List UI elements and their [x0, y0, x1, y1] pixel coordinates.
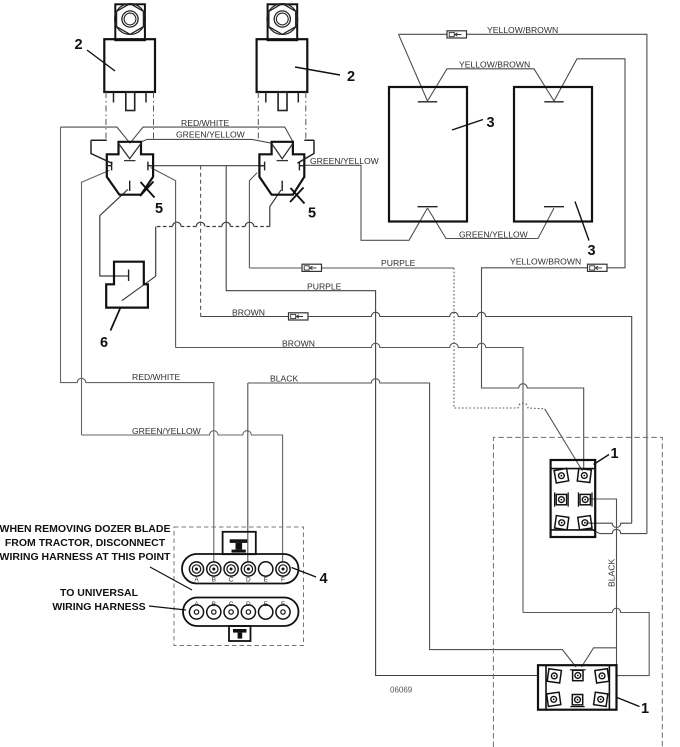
component 6 — [106, 262, 148, 308]
wire BLACK to connector 4 pin D and bottom connector 1 — [248, 379, 576, 667]
svg-text:RED/WHITE: RED/WHITE — [181, 118, 229, 128]
wire jumper connector5 right center pin to bump line — [270, 190, 281, 227]
svg-text:GREEN/YELLOW: GREEN/YELLOW — [310, 156, 380, 166]
svg-text:B: B — [212, 601, 216, 608]
svg-text:TO UNIVERSAL: TO UNIVERSAL — [60, 587, 139, 599]
wire RED/WHITE main to connector 4 pin B — [61, 127, 214, 562]
leader label 5 left — [140, 182, 155, 198]
svg-text:WIRING HARNESS: WIRING HARNESS — [52, 601, 145, 613]
svg-text:3: 3 — [588, 243, 596, 259]
wire diagonal into component 6 — [122, 276, 156, 301]
svg-text:6: 6 — [100, 335, 108, 351]
svg-text:5: 5 — [308, 206, 316, 222]
connector 1 lower — [538, 665, 617, 710]
svg-text:1: 1 — [641, 701, 649, 717]
svg-text:PURPLE: PURPLE — [381, 258, 416, 268]
pin letters lower connector 4 — [194, 601, 285, 608]
svg-text:F: F — [281, 601, 285, 608]
leader label 6 — [111, 308, 121, 331]
leader label 5 right — [290, 188, 305, 204]
svg-text:WHEN REMOVING DOZER BLADE: WHEN REMOVING DOZER BLADE — [0, 523, 170, 535]
svg-text:RED/WHITE: RED/WHITE — [132, 372, 180, 382]
svg-text:GREEN/YELLOW: GREEN/YELLOW — [176, 130, 246, 140]
svg-text:YELLOW/BROWN: YELLOW/BROWN — [510, 257, 581, 267]
svg-text:2: 2 — [347, 69, 355, 85]
connector 4 lower half — [183, 598, 299, 642]
svg-text:E: E — [264, 601, 269, 608]
svg-text:BLACK: BLACK — [270, 374, 298, 384]
svg-text:C: C — [229, 577, 234, 584]
svg-text:FROM TRACTOR, DISCONNECT: FROM TRACTOR, DISCONNECT — [5, 537, 166, 549]
svg-text:F: F — [281, 577, 285, 584]
leader label 2 left — [87, 50, 115, 71]
svg-text:2: 2 — [75, 37, 83, 53]
wire PURPLE 1 diagonal into connector 1 — [545, 409, 583, 471]
wire BLACK vertical from upper connector 1 — [582, 499, 617, 667]
inline connector on yellow/brown top — [447, 31, 467, 38]
wire PURPLE 1 dotted harness section — [454, 268, 545, 409]
svg-text:GREEN/YELLOW: GREEN/YELLOW — [132, 426, 202, 436]
actuator 3 left — [389, 87, 467, 222]
wire YELLOW/BROWN top with vertical right side — [399, 34, 647, 533]
svg-text:YELLOW/BROWN: YELLOW/BROWN — [459, 60, 530, 70]
solenoid valve coil 2 left — [104, 4, 155, 142]
note to universal wiring harness — [52, 587, 145, 613]
actuator 3 right — [514, 87, 592, 222]
wire YELLOW/BROWN second run — [428, 69, 555, 101]
leader label 1 lower — [617, 698, 640, 707]
LEADER LINES — [87, 50, 640, 707]
svg-text:06069: 06069 — [390, 686, 413, 695]
leader label 2 right — [295, 67, 340, 75]
svg-text:PURPLE: PURPLE — [307, 282, 342, 292]
svg-text:YELLOW/BROWN: YELLOW/BROWN — [487, 25, 558, 35]
dashed harness box right — [493, 437, 662, 747]
inline connector on brown — [289, 313, 309, 320]
svg-text:B: B — [212, 577, 216, 584]
wire GREEN/YELLOW main to connector 4 pin F — [82, 170, 283, 562]
inline connector on purple — [302, 264, 322, 271]
pin letters upper connector 4 — [194, 577, 285, 584]
note when removing dozer blade — [0, 523, 171, 563]
wire PURPLE 2 drop from node — [226, 166, 538, 676]
inline connector symbols — [289, 31, 608, 320]
connector 5 left — [91, 140, 153, 194]
solenoid valve coil 2 right — [257, 4, 308, 142]
leader label 3 right — [575, 202, 589, 241]
inline connector on yellow/brown lower — [588, 264, 608, 271]
wire BROWN 2 from connector 5 left right pin — [151, 168, 650, 676]
svg-text:E: E — [264, 577, 269, 584]
connector 4 upper half — [182, 532, 299, 584]
svg-text:A: A — [194, 577, 199, 584]
leader label 3 left — [452, 120, 483, 131]
connector 4 assembly dashed box — [174, 527, 304, 646]
svg-text:A: A — [194, 601, 199, 608]
wire GREEN/YELLOW top run — [142, 139, 272, 143]
svg-text:WIRING HARNESS AT THIS POINT: WIRING HARNESS AT THIS POINT — [0, 551, 171, 563]
svg-text:4: 4 — [320, 571, 328, 587]
svg-text:3: 3 — [487, 115, 495, 131]
wire GREEN/YELLOW between connectors 5 — [147, 165, 264, 167]
leader label 1 upper — [594, 455, 610, 465]
wire GREEN/YELLOW connector 5 right to actuator — [304, 165, 427, 240]
wire YELLOW/BROWN third run to connector 1 — [482, 59, 626, 470]
wire component 6 to connector 5 left center pin — [100, 190, 129, 277]
connector 1 upper — [551, 460, 596, 537]
svg-text:5: 5 — [155, 201, 163, 217]
svg-text:D: D — [246, 577, 251, 584]
wire bump line dashed — [156, 226, 270, 228]
svg-text:C: C — [229, 601, 234, 608]
svg-text:BROWN: BROWN — [232, 308, 265, 318]
leader label 4 — [292, 568, 317, 578]
wire RED/WHITE top run — [61, 127, 293, 143]
wire BROWN 1 run to upper connector 1 — [201, 312, 632, 527]
svg-text:1: 1 — [611, 446, 619, 462]
svg-text:BROWN: BROWN — [282, 339, 315, 349]
svg-text:D: D — [246, 601, 251, 608]
leader text harness point — [150, 567, 192, 590]
connector 5 right — [259, 140, 314, 194]
wire PURPLE 1 from connector 5 right — [249, 173, 454, 268]
wire BROWN 1 dashed drop from node — [200, 166, 202, 317]
svg-text:BLACK: BLACK — [607, 559, 617, 587]
leader text universal harness — [149, 606, 186, 610]
wire GREEN/YELLOW between actuators — [428, 208, 555, 239]
svg-text:GREEN/YELLOW: GREEN/YELLOW — [459, 230, 529, 240]
